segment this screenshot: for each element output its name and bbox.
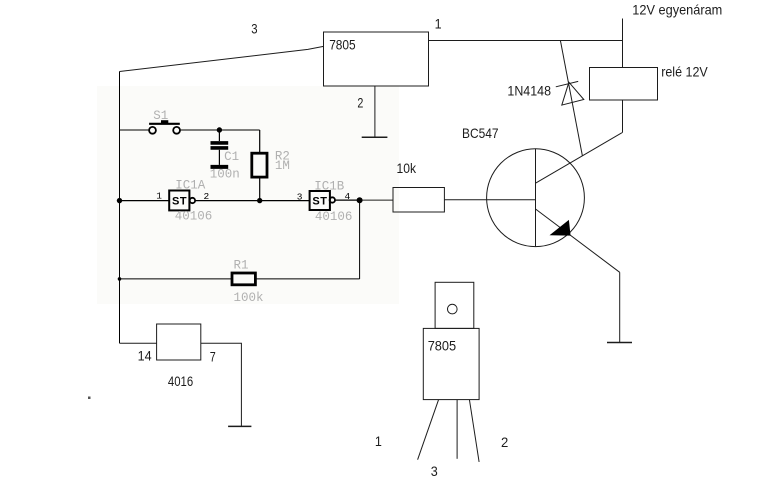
switch S1 actuator nub: [161, 120, 168, 123]
svg-text:1: 1: [435, 16, 442, 32]
svg-text:40106: 40106: [315, 210, 353, 224]
capacitor C1 plate 2: [211, 146, 229, 150]
svg-text:BC547: BC547: [462, 125, 499, 141]
svg-text:10k: 10k: [397, 160, 417, 176]
svg-text:7805: 7805: [428, 338, 457, 354]
package leg 3: [469, 400, 479, 462]
svg-text:1N4148: 1N4148: [507, 83, 551, 99]
junction (lower rail / left rail): [118, 277, 122, 281]
gate IC1A box: [169, 191, 189, 211]
svg-text:7805: 7805: [329, 37, 356, 53]
transistor Q1 emitter wire: [536, 209, 620, 272]
package drawing: 7805 body: [423, 328, 479, 399]
wire: 7805 pin2 to ground: [374, 86, 376, 137]
svg-text:R1: R1: [234, 258, 249, 272]
junction (left rail / gate input): [117, 198, 122, 203]
wire: IC1B out to junction: [335, 199, 360, 201]
wire: IC1A out to IC1B in: [195, 200, 310, 202]
switch S1 right contact: [173, 127, 180, 134]
transistor Q1 collector wire: [536, 133, 623, 184]
diode D1 cathode bar: [556, 81, 578, 86]
wire: input diagonal (pin 3): [120, 46, 324, 71]
transistor Q1 BC547 circle: [487, 149, 585, 247]
wire: S1 to R2 top: [180, 129, 260, 131]
junction (R2 bottom): [257, 198, 262, 203]
wire: 10k to base: [444, 199, 535, 201]
capacitor C1 plate 1: [211, 141, 229, 145]
wire: left rail to 4016 pin 14: [120, 342, 157, 344]
svg-text:7: 7: [210, 348, 216, 364]
resistor R2 box: [252, 153, 267, 177]
ground (4016 pin 7): [228, 425, 251, 427]
svg-text:12V egyenáram: 12V egyenáram: [632, 1, 722, 17]
diode D1 triangle: [562, 82, 584, 105]
svg-text:3: 3: [297, 192, 303, 203]
switch S1 wire left: [120, 129, 150, 131]
svg-text:14: 14: [138, 347, 152, 363]
svg-text:100n: 100n: [210, 168, 240, 182]
gate IC1B box: [310, 191, 330, 210]
junction (C1 top): [217, 127, 222, 132]
svg-text:IC1A: IC1A: [175, 179, 206, 193]
wire: lower rail right of R1: [255, 278, 359, 280]
svg-text:ST: ST: [312, 196, 327, 208]
IC U3 4016 box: [157, 324, 201, 360]
switch S1 left contact: [149, 127, 156, 134]
resistor R1 box: [232, 273, 255, 285]
stray dot: [88, 397, 91, 400]
switch S1 actuator bar: [149, 123, 180, 125]
gate IC1A inverter bubble: [190, 198, 195, 203]
capacitor C1 lead top: [218, 130, 220, 141]
regulator U2 7805 box: [324, 32, 429, 86]
resistor R2 lead top: [259, 130, 261, 153]
svg-text:C1: C1: [224, 150, 239, 164]
package leg 1: [418, 400, 439, 460]
svg-text:3: 3: [431, 463, 438, 479]
svg-text:3: 3: [251, 21, 257, 37]
svg-text:1M: 1M: [275, 159, 290, 173]
wire: emitter to ground: [619, 272, 621, 342]
wire: 4016 pin 7 out: [201, 343, 242, 426]
wire: lower rail left of R1: [120, 278, 233, 280]
wire: gate output junction to 10k: [360, 199, 393, 201]
svg-text:2: 2: [357, 95, 363, 111]
ground (7805 pin 2): [362, 136, 388, 138]
wire: feedback vertical: [359, 200, 361, 279]
package leg 2: [456, 400, 458, 459]
svg-text:IC1B: IC1B: [314, 180, 345, 194]
svg-text:1: 1: [156, 191, 162, 202]
transistor Q1 base bar: [535, 149, 537, 246]
wire: 7805 output to 12V rail: [429, 40, 623, 42]
resistor R3 10k box: [393, 188, 444, 213]
svg-text:relé 12V: relé 12V: [661, 63, 708, 79]
junction (IC1B out node): [357, 197, 363, 203]
node: 12V supply stub: [622, 19, 624, 68]
resistor R2 lead bottom: [259, 177, 261, 201]
svg-text:40106: 40106: [175, 210, 213, 224]
svg-text:2: 2: [501, 434, 508, 450]
ground (emitter): [607, 342, 632, 344]
capacitor C1 lead bottom: [218, 150, 220, 165]
wire: relay bottom: [622, 100, 624, 133]
svg-text:ST: ST: [172, 196, 187, 208]
diode D1 1N4148 wire: [560, 41, 582, 156]
package drawing: 7805 TO-220 tab: [435, 282, 474, 328]
svg-text:100k: 100k: [234, 291, 264, 305]
ground (C1, thick bar): [211, 165, 229, 169]
gate IC1B inverter bubble: [330, 197, 335, 202]
wire: left vertical rail: [119, 72, 121, 344]
transistor Q1 emitter arrow: [551, 221, 570, 235]
wire: rail to IC1A input: [120, 200, 170, 202]
svg-text:S1: S1: [153, 109, 168, 123]
svg-text:1: 1: [375, 433, 382, 449]
package drawing: mounting hole: [448, 304, 458, 314]
relay K1 coil box: [590, 68, 658, 101]
svg-text:4016: 4016: [168, 373, 193, 389]
